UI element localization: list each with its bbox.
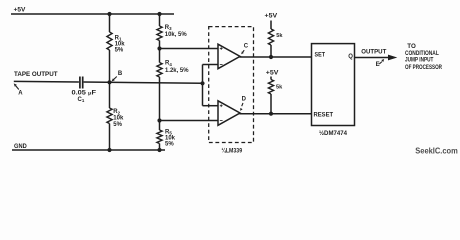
svg-text:B: B <box>118 71 123 77</box>
svg-text:1.2k, 5%: 1.2k, 5% <box>165 68 189 74</box>
svg-text:¼LM339: ¼LM339 <box>222 147 243 154</box>
svg-text:½DM7474: ½DM7474 <box>319 130 348 137</box>
svg-text:0.05 μF: 0.05 μF <box>72 91 97 97</box>
svg-text:5%: 5% <box>115 47 124 53</box>
svg-text:5%: 5% <box>113 122 122 128</box>
svg-text:R4: R4 <box>165 61 172 67</box>
svg-text:10k, 5%: 10k, 5% <box>165 32 188 38</box>
svg-text:RESET: RESET <box>314 113 334 119</box>
svg-text:OF PROCESSOR: OF PROCESSOR <box>405 64 442 71</box>
svg-text:R3: R3 <box>165 25 172 31</box>
svg-text:JUMP INPUT: JUMP INPUT <box>405 57 434 64</box>
svg-text:TO: TO <box>407 43 416 50</box>
svg-text:5k: 5k <box>276 85 283 91</box>
svg-text:A: A <box>18 91 23 97</box>
svg-text:R2: R2 <box>113 109 120 115</box>
svg-text:OUTPUT: OUTPUT <box>361 50 386 56</box>
svg-text:5k: 5k <box>276 33 283 39</box>
svg-text:Q: Q <box>348 54 353 60</box>
svg-text:E: E <box>376 62 380 68</box>
svg-text:SeekIC.com: SeekIC.com <box>415 146 458 155</box>
svg-text:5%: 5% <box>165 141 174 147</box>
svg-text:+5V: +5V <box>14 8 26 14</box>
svg-text:SET: SET <box>315 52 326 58</box>
svg-text:D: D <box>242 97 247 103</box>
svg-text:10k: 10k <box>113 116 124 122</box>
svg-text:+5V: +5V <box>265 13 278 19</box>
svg-text:GND: GND <box>14 144 27 150</box>
svg-text:C: C <box>244 44 249 50</box>
svg-text:+5V: +5V <box>266 71 279 77</box>
svg-text:TAPE OUTPUT: TAPE OUTPUT <box>14 72 58 78</box>
svg-text:C1: C1 <box>78 97 85 103</box>
